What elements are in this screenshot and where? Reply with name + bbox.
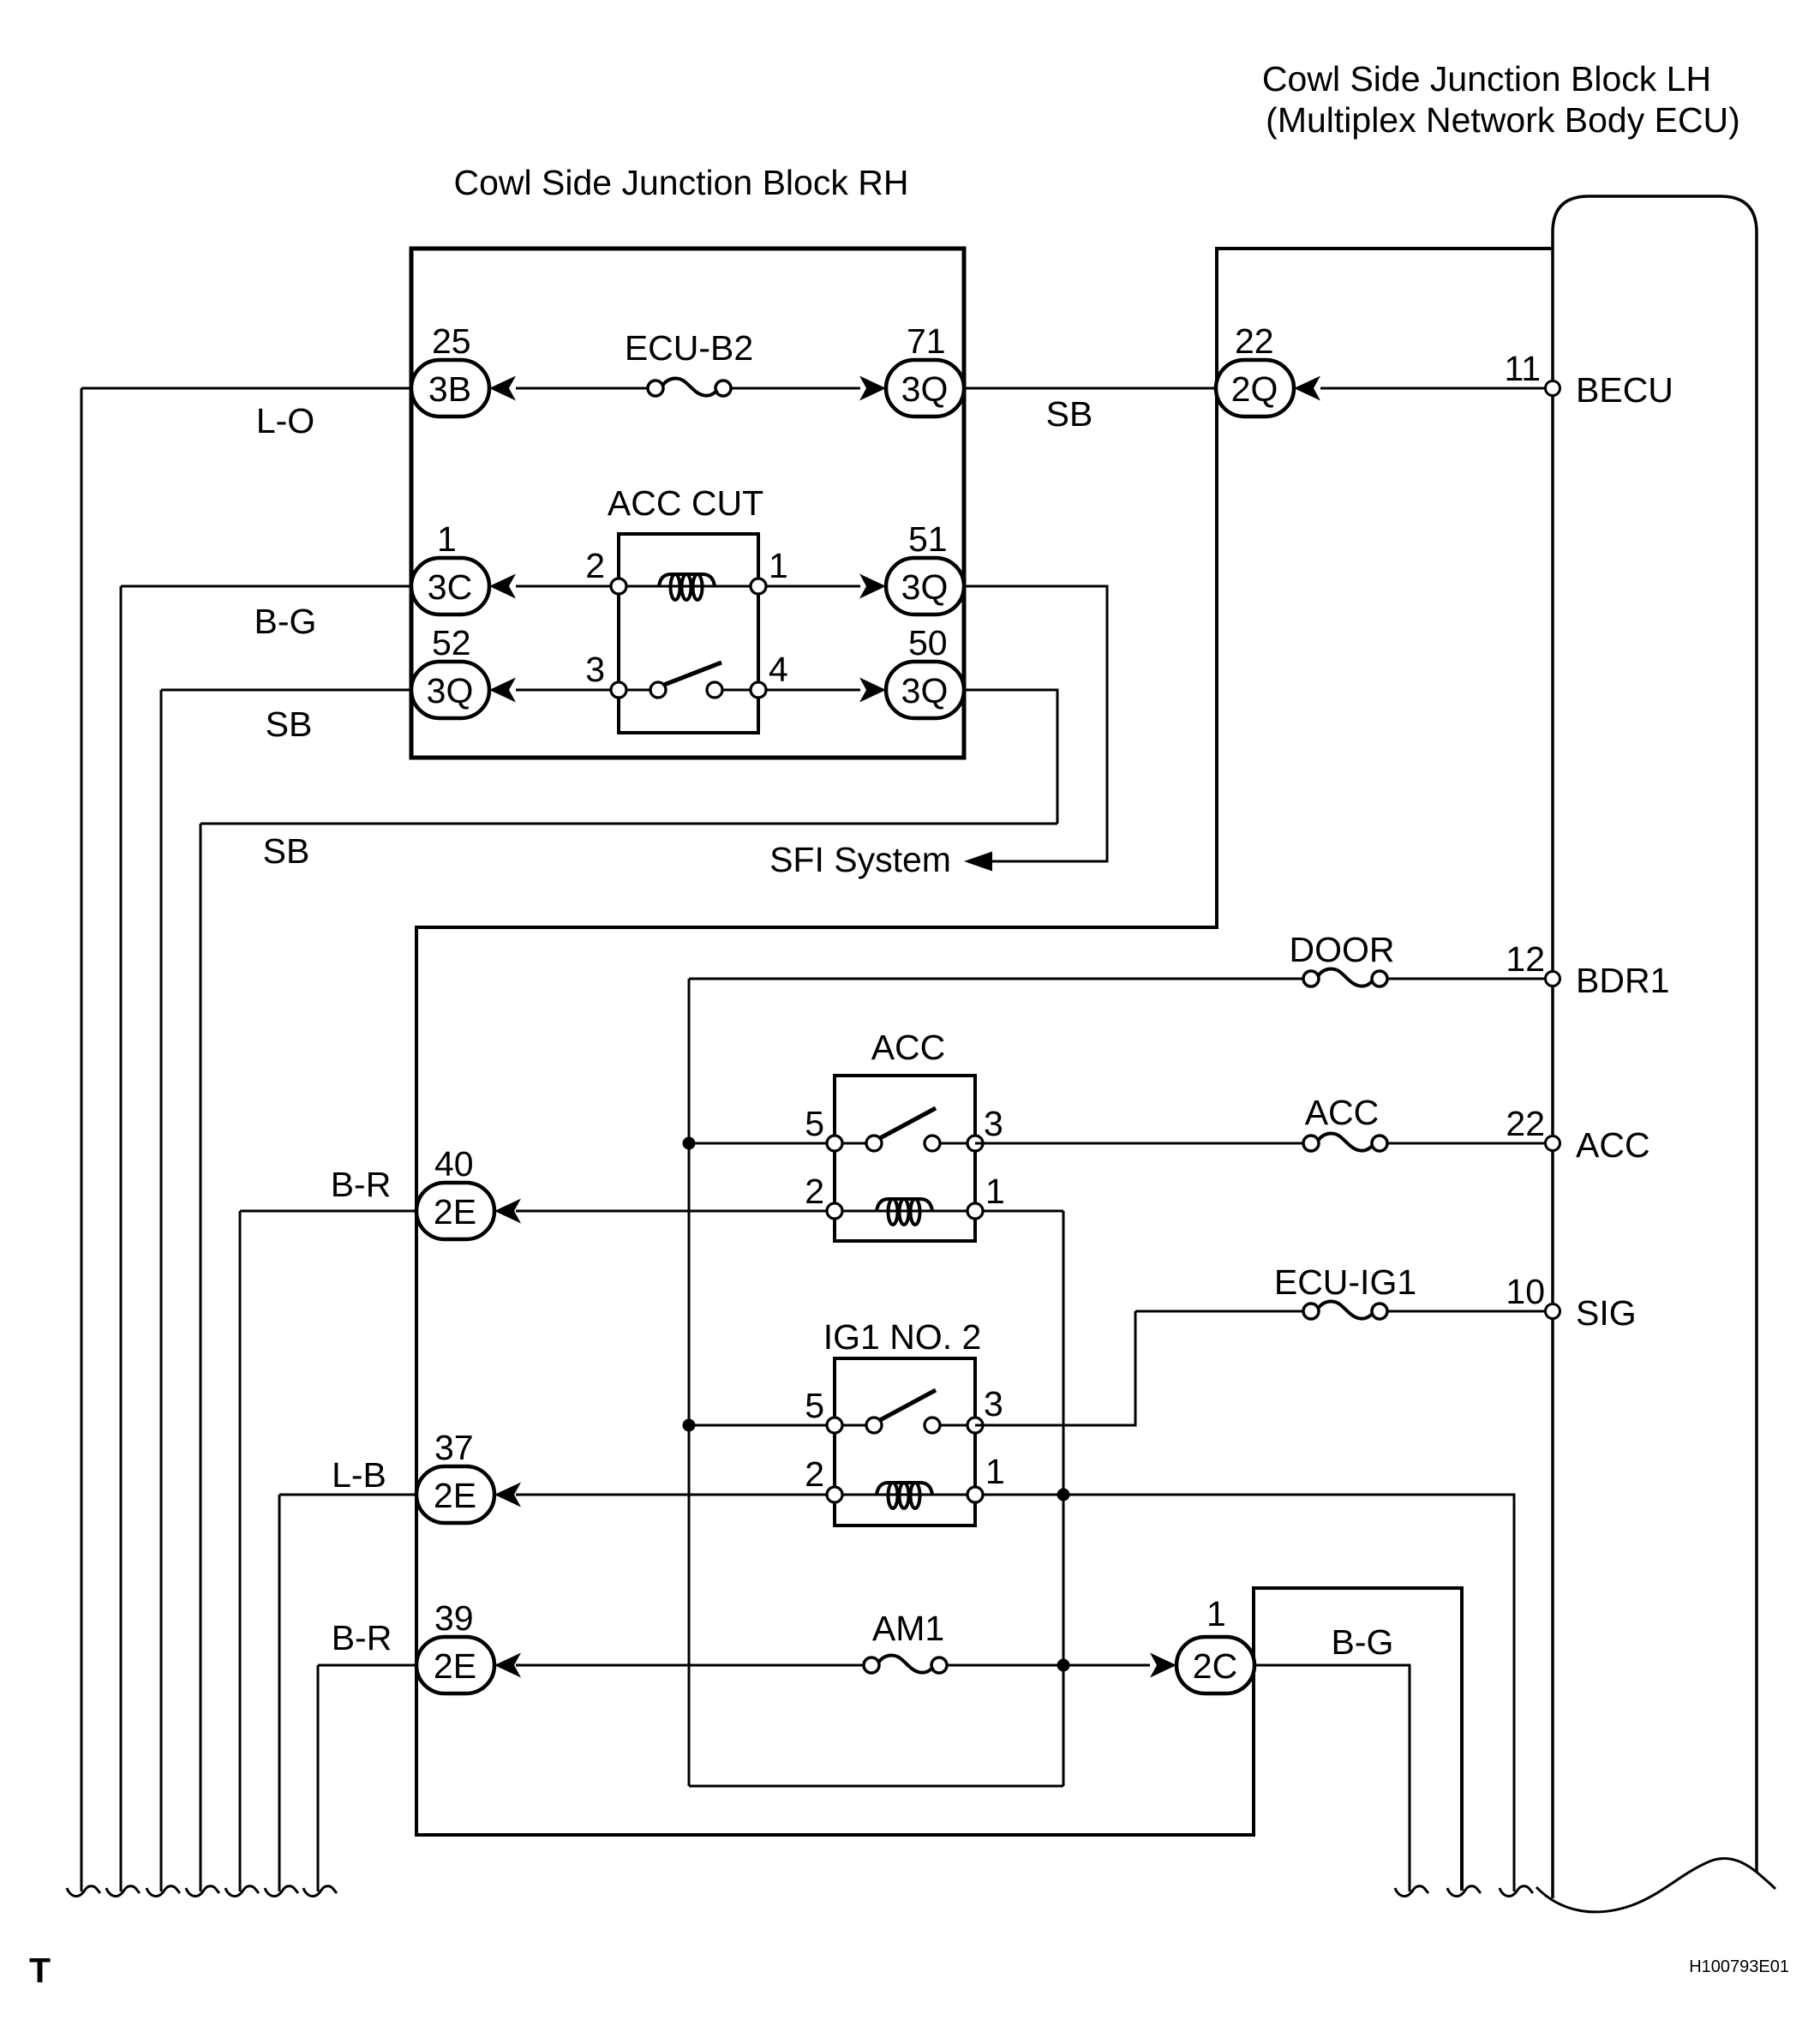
pin 2 ACC CUT [611, 578, 626, 594]
svg-text:25: 25 [432, 321, 471, 361]
wire ACC pin1 to corner [975, 1210, 1063, 1213]
fuse DOOR [1303, 968, 1387, 986]
wire row1 2Q to BECU terminal [1320, 387, 1546, 390]
wire SB horizontal row3 left [161, 689, 411, 692]
bus bottom horizontal [689, 1785, 1063, 1788]
svg-text:L-B: L-B [332, 1455, 386, 1495]
switch IG1 [827, 1390, 983, 1433]
svg-text:3: 3 [984, 1384, 1003, 1424]
wire end squiggle x326 [265, 1886, 298, 1897]
svg-text:1: 1 [769, 546, 788, 585]
arrow into 2C [1150, 1653, 1176, 1678]
connector 3Q 71 [886, 360, 964, 417]
svg-text:5: 5 [805, 1386, 824, 1425]
svg-text:2: 2 [805, 1172, 824, 1211]
svg-text:2E: 2E [434, 1646, 476, 1686]
switch ACC CUT [611, 662, 766, 698]
arrow to SFI System [964, 852, 992, 872]
svg-text:37: 37 [434, 1428, 474, 1467]
terminal 10 SIG [1546, 1304, 1560, 1319]
wire DOOR row [689, 978, 1303, 980]
pin 5 ACC circle [827, 1203, 842, 1219]
svg-text:3Q: 3Q [901, 369, 949, 409]
svg-text:3C: 3C [428, 567, 472, 607]
wire IG1 coil row left [516, 1494, 835, 1496]
svg-text:BECU: BECU [1576, 370, 1673, 410]
svg-text:SB: SB [266, 704, 313, 744]
svg-text:5: 5 [805, 1104, 824, 1143]
pin 1 IG1 circle [967, 1487, 983, 1502]
svg-text:SB: SB [1046, 394, 1093, 434]
junction dot IG1 pin1 [1057, 1489, 1070, 1502]
svg-text:3: 3 [984, 1104, 1003, 1143]
svg-text:51: 51 [908, 519, 948, 559]
junction block RH lower outline thick polyline [416, 249, 1553, 1891]
svg-text:11: 11 [1504, 349, 1541, 388]
svg-text:2: 2 [585, 546, 605, 585]
svg-text:H100793E01: H100793E01 [1689, 1957, 1789, 1976]
svg-text:IG1 NO. 2: IG1 NO. 2 [823, 1317, 982, 1357]
arrow into 3Q50 [859, 678, 886, 703]
wire IG1 pin3 to riser [975, 1311, 1135, 1425]
arrow into 3Q52 [489, 678, 516, 703]
wire 51 exit right [964, 586, 1107, 861]
svg-text:B-G: B-G [1332, 1622, 1394, 1662]
connector 2Q [1216, 360, 1294, 417]
arrow into 2E39 [494, 1653, 521, 1678]
coil ACC [877, 1199, 932, 1225]
junction block LH body outline [1553, 196, 1757, 1898]
svg-text:4: 4 [769, 650, 788, 689]
svg-text:2: 2 [805, 1454, 824, 1494]
relay ACC box [835, 1076, 975, 1241]
svg-text:1: 1 [1206, 1594, 1226, 1633]
svg-text:3Q: 3Q [901, 567, 949, 607]
wire L-O vertical drop [81, 388, 83, 1891]
wire B-R 39 vertical drop [317, 1665, 320, 1891]
relay IG1 NO2 box [835, 1358, 975, 1526]
wire AM1 fuse to 2C [947, 1664, 1150, 1667]
switch ACC [827, 1108, 983, 1151]
svg-text:52: 52 [432, 623, 471, 662]
svg-text:3Q: 3Q [427, 671, 474, 710]
svg-text:ECU-B2: ECU-B2 [625, 328, 753, 368]
junction dot IG1 pin5 [683, 1419, 696, 1432]
svg-text:DOOR: DOOR [1290, 930, 1395, 969]
pin 1 ACC circle [967, 1203, 983, 1219]
terminal 22 ACC [1546, 1136, 1560, 1151]
svg-text:T: T [29, 1951, 51, 1990]
arrow into 3C [489, 574, 516, 599]
wire row2 relay pin1 to 3Q51 [758, 585, 860, 588]
fuse ECU-B2 [648, 378, 731, 396]
svg-text:SB: SB [263, 831, 310, 871]
wire row3 relay pin4 to 3Q50 [758, 689, 860, 692]
svg-text:50: 50 [908, 623, 948, 662]
svg-text:BDR1: BDR1 [1576, 961, 1669, 1000]
wire ACC CUT coil row inner [619, 585, 758, 588]
svg-text:ACC CUT: ACC CUT [608, 483, 763, 523]
svg-text:3: 3 [585, 650, 605, 689]
arrow into 3B [489, 376, 516, 401]
svg-text:2E: 2E [434, 1476, 476, 1515]
relay ACC CUT box [619, 534, 758, 733]
connector 2E 39 [416, 1637, 494, 1693]
svg-text:L-O: L-O [256, 401, 314, 441]
arrow into 2E37 [494, 1483, 521, 1508]
wire 50 exit right to SB2 [964, 690, 1057, 824]
wire end squiggle x234 [186, 1886, 219, 1897]
fuse ECU-IG1 [1303, 1301, 1387, 1319]
wire ACC coil row [516, 1210, 835, 1213]
svg-text:1: 1 [985, 1172, 1005, 1211]
svg-text:1: 1 [985, 1452, 1005, 1491]
svg-text:12: 12 [1506, 939, 1545, 979]
wire end squiggle x371 [303, 1886, 337, 1897]
wire ACC fuse to terminal [1387, 1142, 1546, 1145]
arrow into 3Q71 [859, 376, 886, 401]
connector 3Q 50 [886, 662, 964, 718]
wire row3 3Q52 to relay pin3 [516, 689, 619, 692]
svg-text:SFI System: SFI System [769, 840, 951, 879]
svg-text:3B: 3B [428, 369, 471, 409]
arrow into 2E40 [494, 1199, 521, 1224]
svg-text:AM1: AM1 [872, 1609, 944, 1648]
bus vertical from DOOR corner [688, 979, 691, 1786]
wire end squiggle x1767 [1500, 1886, 1533, 1897]
pin 2 IG1 circle [827, 1487, 842, 1502]
wire row1 fuse to 3Q71 [730, 387, 860, 390]
connector 2E 40 [416, 1183, 494, 1239]
wire ACC coil row inner [835, 1210, 975, 1213]
svg-text:2Q: 2Q [1231, 369, 1278, 409]
arrow into 3Q51 [859, 574, 886, 599]
svg-text:2E: 2E [434, 1192, 476, 1232]
wire SB2 vertical drop [200, 824, 202, 1891]
svg-text:Cowl Side Junction Block LH: Cowl Side Junction Block LH [1262, 59, 1711, 99]
svg-text:Cowl Side Junction Block RH: Cowl Side Junction Block RH [454, 163, 909, 202]
connector 2E 37 [416, 1466, 494, 1523]
terminal 11 BECU [1546, 381, 1560, 396]
junction dot ACC pin5 [683, 1137, 696, 1150]
wire end squiggle x280 [225, 1886, 259, 1897]
arrow into 2Q [1294, 376, 1320, 401]
wire AM1 row left [516, 1664, 864, 1667]
wire ECU-IG1 row [1135, 1310, 1303, 1313]
wire IG1 pin1 to L-B drop [975, 1495, 1514, 1891]
wire ACC pin5 feed [689, 1142, 835, 1145]
svg-text:2C: 2C [1193, 1646, 1237, 1686]
wire end squiggle x188 [147, 1886, 180, 1897]
coil IG1 [877, 1483, 932, 1508]
svg-text:ACC: ACC [1576, 1125, 1650, 1165]
svg-text:39: 39 [434, 1598, 474, 1638]
wire L-O horizontal row1 left [81, 387, 411, 390]
wire L-B row 37 left [279, 1494, 416, 1496]
wire IG1 pin5 feed [689, 1424, 835, 1427]
connector 3B [411, 360, 489, 417]
wire ECU-IG1 fuse to SIG [1387, 1310, 1546, 1313]
wire row1 box to 2Q [964, 387, 1216, 390]
svg-text:22: 22 [1506, 1104, 1545, 1143]
wire row1 inside box to fuse [516, 387, 649, 390]
svg-text:(Multiplex Network Body ECU): (Multiplex Network Body ECU) [1266, 100, 1740, 140]
svg-text:ECU-IG1: ECU-IG1 [1274, 1262, 1416, 1302]
svg-text:3Q: 3Q [901, 671, 949, 710]
junction block RH upper box [411, 249, 964, 758]
wire SB vertical drop [160, 690, 163, 1891]
wire B-R row 40 left [240, 1210, 416, 1213]
connector 3Q 52 [411, 662, 489, 718]
svg-text:B-R: B-R [331, 1165, 392, 1204]
wire B-R row 39 left [318, 1664, 416, 1667]
svg-text:1: 1 [437, 519, 457, 559]
wire ACC pin3 to fuse [975, 1142, 1303, 1145]
svg-text:ACC: ACC [871, 1028, 946, 1067]
wire L-B vertical drop [278, 1495, 281, 1891]
junction block LH bottom wave [1536, 1859, 1775, 1912]
connector 3C [411, 558, 489, 614]
fuse ACC [1303, 1133, 1387, 1151]
svg-text:B-R: B-R [332, 1618, 392, 1657]
wire B-G horizontal row2 left [121, 585, 411, 588]
connector 2C [1176, 1637, 1254, 1693]
wire end squiggle x1645 [1395, 1886, 1428, 1897]
wire B-G from 2C [1254, 1665, 1410, 1891]
wire DOOR fuse to BDR1 [1387, 978, 1546, 980]
wire row2 3C to relay pin2 [516, 585, 619, 588]
wire B-G vertical drop [120, 586, 123, 1891]
svg-text:40: 40 [434, 1144, 474, 1184]
wire SB2 horizontal [201, 823, 1057, 825]
junction dot AM1 [1057, 1659, 1070, 1672]
wire end squiggle x141 [106, 1886, 140, 1897]
wire end squiggle x95 [67, 1886, 100, 1897]
svg-text:ACC: ACC [1305, 1093, 1380, 1132]
svg-text:22: 22 [1235, 321, 1274, 361]
bus vertical x1241 [1063, 1211, 1065, 1786]
svg-text:B-G: B-G [254, 602, 317, 641]
coil ACC CUT [659, 574, 715, 600]
svg-text:SIG: SIG [1576, 1293, 1637, 1333]
connector 3Q 51 [886, 558, 964, 614]
fuse AM1 [864, 1655, 947, 1673]
terminal 12 BDR1 [1546, 972, 1560, 986]
wire end squiggle x1706 [1447, 1886, 1481, 1897]
svg-text:71: 71 [907, 321, 946, 361]
wire B-R 40 vertical drop [239, 1211, 242, 1891]
wire IG1 coil row inner [835, 1494, 975, 1496]
svg-text:10: 10 [1506, 1272, 1545, 1311]
pin 1 ACC CUT [751, 578, 766, 594]
